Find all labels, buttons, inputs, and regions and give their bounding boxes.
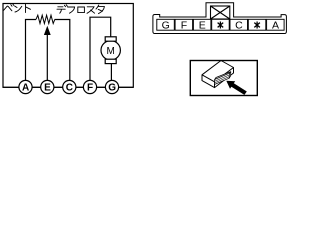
svg-text:E: E [199,19,206,31]
svg-text:F: F [87,83,93,94]
svg-text:G: G [162,19,170,31]
svg-text:F: F [181,19,187,31]
svg-text:G: G [108,83,116,94]
svg-text:E: E [44,83,51,94]
svg-text:A: A [22,83,29,94]
svg-text:A: A [272,19,279,31]
svg-text:C: C [235,19,243,31]
svg-text:C: C [66,83,73,94]
svg-text:M: M [107,46,115,57]
